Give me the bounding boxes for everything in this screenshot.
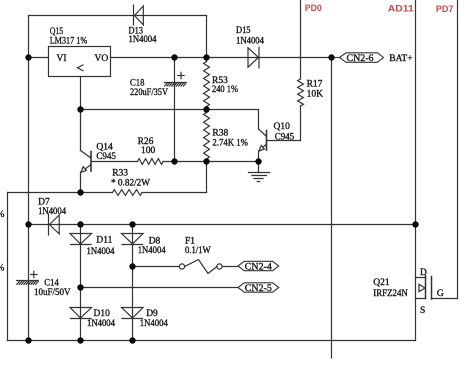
svg-text:R33: R33 bbox=[112, 168, 128, 178]
svg-text:D10: D10 bbox=[94, 309, 111, 319]
svg-text:C14: C14 bbox=[44, 279, 59, 289]
svg-text:LM317 1%: LM317 1% bbox=[50, 36, 88, 46]
svg-text:1N4004: 1N4004 bbox=[138, 246, 166, 256]
wire R33 right riser bbox=[206, 162, 208, 193]
transistor Q21 IRFZ24N MOSFET bbox=[416, 276, 432, 300]
wire D13 right drop to VO line bbox=[206, 16, 208, 58]
svg-text:1N4004: 1N4004 bbox=[87, 247, 115, 257]
svg-text:BAT+: BAT+ bbox=[389, 54, 412, 64]
diode D15 1N4004 bbox=[248, 47, 259, 68]
svg-text:Q21: Q21 bbox=[373, 278, 390, 288]
svg-text:CN2-5: CN2-5 bbox=[245, 284, 272, 294]
svg-text:CN2-4: CN2-4 bbox=[245, 262, 272, 272]
fuse F1 0.1/1W bbox=[179, 260, 222, 274]
wire R53-R38 mid leads bbox=[206, 107, 208, 113]
wire bottom return line bbox=[8, 340, 416, 342]
wire AD11 net vertical bbox=[415, 0, 417, 278]
wire D7 horizontal net bbox=[29, 224, 416, 226]
svg-text:S: S bbox=[420, 306, 425, 316]
diode D7 1N4004 bbox=[49, 214, 60, 235]
wire R38 bottom lead bbox=[206, 159, 208, 162]
svg-text:100: 100 bbox=[141, 146, 156, 156]
regulator U1 LM317 Q15 bbox=[49, 47, 111, 77]
svg-text:R17: R17 bbox=[307, 80, 323, 90]
svg-text:10K: 10K bbox=[307, 90, 324, 100]
svg-text:1N4004: 1N4004 bbox=[38, 207, 66, 217]
transistor Q10 C945 bbox=[259, 129, 267, 151]
svg-text:1N4004: 1N4004 bbox=[87, 319, 115, 329]
wire R17 bottom lead bbox=[300, 106, 302, 141]
svg-text:1N4004: 1N4004 bbox=[129, 35, 157, 45]
wire Q10 emitter lead bbox=[258, 151, 260, 162]
wire node line R26 to ground node bbox=[163, 161, 258, 163]
wire R33 line right segment bbox=[142, 192, 207, 194]
svg-text:PD0: PD0 bbox=[305, 3, 322, 13]
svg-text:G: G bbox=[437, 289, 444, 299]
wire F1 to CN2-4 bbox=[222, 266, 238, 268]
svg-text:D: D bbox=[420, 268, 427, 278]
resistor R26 100 bbox=[138, 159, 164, 165]
wire PD0 net vertical upper bbox=[300, 0, 302, 79]
svg-text:240 1%: 240 1% bbox=[212, 85, 238, 95]
wire left input rail bbox=[28, 16, 30, 341]
svg-text:IRFZ24N: IRFZ24N bbox=[373, 289, 408, 299]
capacitor C14 10uF/50V bbox=[17, 271, 39, 284]
svg-text:D11: D11 bbox=[96, 235, 112, 245]
svg-text:%: % bbox=[0, 210, 5, 220]
svg-text:CN2-6: CN2-6 bbox=[347, 54, 374, 64]
svg-text:VI: VI bbox=[57, 54, 67, 64]
wire diode chain D8-D9 vertical bbox=[132, 225, 134, 341]
wire CN2-5 line bbox=[81, 287, 239, 289]
node CN2-4 connector tag bbox=[238, 261, 279, 270]
wire F1 left lead bbox=[133, 266, 180, 268]
wire diode chain D11-D10 vertical bbox=[80, 225, 82, 341]
wire top loop from input rail to D13 bbox=[29, 15, 207, 17]
svg-text:2.74K 1%: 2.74K 1% bbox=[212, 139, 248, 149]
svg-text:10uF/50V: 10uF/50V bbox=[34, 288, 71, 298]
svg-text:C18: C18 bbox=[130, 79, 145, 89]
wire PD7 net vertical bbox=[457, 0, 459, 299]
resistor R33 0.82/2W bbox=[113, 190, 143, 196]
transistor Q14 C945 bbox=[81, 110, 92, 193]
svg-text:PD7: PD7 bbox=[436, 4, 454, 14]
svg-text:Q10: Q10 bbox=[274, 122, 291, 132]
resistor R17 10K bbox=[298, 79, 304, 106]
node CN2-5 connector tag bbox=[238, 283, 279, 292]
svg-text:* 0.82/2W: * 0.82/2W bbox=[111, 179, 150, 189]
svg-text:0.1/1W: 0.1/1W bbox=[185, 246, 211, 256]
wire left outer drop bbox=[7, 193, 9, 341]
wire ADJ net horizontal bbox=[81, 109, 259, 111]
wire gate lead to PD7 bbox=[432, 298, 458, 300]
wire C18 branch vertical bbox=[174, 58, 176, 162]
svg-text:1N4004: 1N4004 bbox=[236, 37, 264, 47]
svg-text:VO: VO bbox=[95, 54, 109, 64]
diode D11 1N4004 bbox=[70, 234, 92, 245]
wire Q10 base to R17 bbox=[267, 140, 301, 142]
diode D13 1N4004 bbox=[134, 5, 144, 25]
node CN2-6 connector tag with BAT+ bbox=[332, 53, 384, 63]
svg-text:C945: C945 bbox=[96, 152, 116, 162]
svg-text:AD11: AD11 bbox=[388, 4, 414, 14]
wire R53 top lead bbox=[206, 58, 208, 62]
svg-text:%: % bbox=[0, 264, 5, 274]
wire R33 line left segment bbox=[8, 192, 113, 194]
ground bbox=[249, 162, 270, 182]
svg-text:D9: D9 bbox=[146, 309, 158, 319]
wire Q10 collector lead bbox=[258, 110, 260, 130]
capacitor C18 220uF/35V bbox=[165, 72, 187, 86]
svg-text:D15: D15 bbox=[236, 26, 251, 36]
svg-text:D7: D7 bbox=[38, 197, 50, 207]
wire VO output line to BAT+ node bbox=[111, 57, 332, 59]
svg-text:R38: R38 bbox=[212, 128, 228, 138]
resistor R53 240 1% bbox=[204, 62, 210, 107]
wire ADJ pin down bbox=[80, 77, 82, 110]
diode D10 1N4004 bbox=[70, 308, 92, 319]
diode D8 1N4004 bbox=[122, 234, 144, 245]
resistor R38 2.74K 1% bbox=[204, 113, 210, 159]
diode D9 1N4004 bbox=[122, 308, 144, 319]
node BAT+ stub vertical bbox=[331, 58, 333, 359]
wire VI input segment bbox=[29, 57, 49, 59]
node junction dots bbox=[25, 54, 31, 60]
svg-text:220uF/35V: 220uF/35V bbox=[130, 88, 168, 98]
svg-text:C945: C945 bbox=[275, 132, 295, 142]
svg-text:1N4004: 1N4004 bbox=[140, 319, 168, 329]
wire node line Q14 base to R26 bbox=[91, 161, 138, 163]
wire Q21 source to bottom line bbox=[415, 299, 417, 341]
